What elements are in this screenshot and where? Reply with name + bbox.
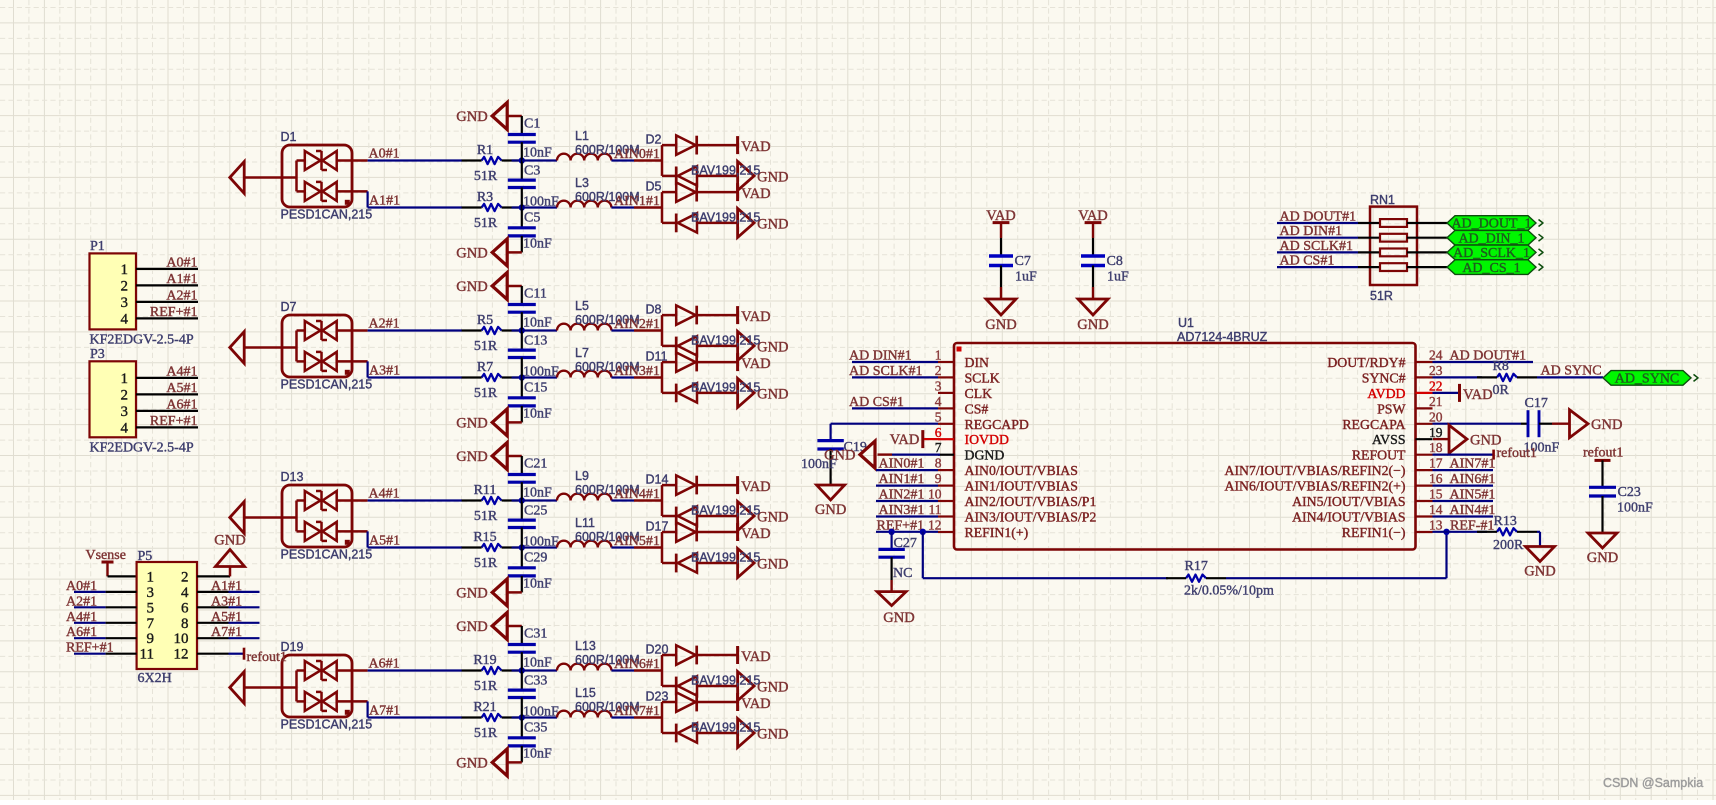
svg-text:2: 2	[121, 387, 129, 403]
svg-text:3: 3	[121, 295, 129, 311]
svg-text:AD SYNC: AD SYNC	[1541, 364, 1602, 379]
svg-text:PESD1CAN,215: PESD1CAN,215	[281, 718, 373, 732]
svg-text:VAD: VAD	[741, 139, 771, 155]
svg-text:1uF: 1uF	[1107, 270, 1129, 285]
svg-text:10nF: 10nF	[523, 316, 552, 331]
svg-text:refout1: refout1	[247, 650, 287, 665]
svg-text:C5: C5	[524, 210, 540, 225]
svg-text:3: 3	[121, 404, 129, 420]
svg-text:AIN7#1: AIN7#1	[1450, 457, 1496, 472]
svg-text:AIN0#1: AIN0#1	[614, 147, 660, 162]
svg-text:R5: R5	[477, 313, 493, 328]
svg-text:A3#1: A3#1	[369, 364, 400, 379]
svg-text:AIN1#1: AIN1#1	[614, 194, 660, 209]
svg-text:A1#1: A1#1	[369, 194, 400, 209]
svg-text:refout1: refout1	[1583, 446, 1623, 461]
svg-text:51R: 51R	[474, 216, 498, 231]
svg-text:R3: R3	[477, 190, 493, 205]
svg-text:REF+#1: REF+#1	[150, 414, 198, 429]
svg-text:GND: GND	[757, 386, 788, 402]
svg-text:VAD: VAD	[741, 356, 771, 372]
svg-text:AIN5#1: AIN5#1	[1450, 488, 1496, 503]
svg-text:R8: R8	[1493, 359, 1509, 374]
svg-text:1: 1	[121, 371, 129, 387]
svg-text:AIN6/IOUT/VBIAS/REFIN2(+): AIN6/IOUT/VBIAS/REFIN2(+)	[1225, 479, 1406, 495]
svg-text:L13: L13	[575, 639, 596, 653]
svg-text:refout1: refout1	[1497, 446, 1537, 461]
svg-text:A7#1: A7#1	[369, 704, 400, 719]
svg-text:VAD: VAD	[741, 309, 771, 325]
svg-text:REF+#1: REF+#1	[877, 518, 925, 533]
svg-text:AIN1#1: AIN1#1	[879, 472, 925, 487]
svg-text:NC: NC	[893, 566, 912, 581]
svg-text:PESD1CAN,215: PESD1CAN,215	[281, 208, 373, 222]
svg-text:20: 20	[1429, 409, 1443, 424]
svg-text:R13: R13	[1494, 514, 1517, 529]
svg-text:U1: U1	[1178, 316, 1194, 330]
svg-text:REGCAPD: REGCAPD	[965, 417, 1029, 432]
svg-text:51R: 51R	[474, 556, 498, 571]
svg-text:C35: C35	[524, 720, 547, 735]
svg-text:C23: C23	[1618, 485, 1641, 500]
svg-text:P1: P1	[90, 239, 105, 254]
svg-text:A0#1: A0#1	[66, 579, 97, 594]
svg-text:CLK: CLK	[965, 386, 993, 401]
svg-text:KF2EDGV-2.5-4P: KF2EDGV-2.5-4P	[90, 333, 194, 348]
svg-text:R21: R21	[473, 700, 496, 715]
svg-text:13: 13	[1429, 518, 1443, 533]
svg-text:GND: GND	[757, 339, 788, 355]
svg-text:AIN2#1: AIN2#1	[614, 317, 660, 332]
svg-text:AD_DIN_1: AD_DIN_1	[1458, 231, 1524, 246]
svg-text:AIN5/IOUT/VBIAS: AIN5/IOUT/VBIAS	[1292, 494, 1405, 509]
svg-text:VAD: VAD	[1463, 387, 1493, 403]
svg-text:GND: GND	[757, 510, 788, 526]
svg-text:L15: L15	[575, 686, 596, 700]
svg-text:12: 12	[174, 647, 189, 663]
svg-text:AD DOUT#1: AD DOUT#1	[1450, 349, 1527, 364]
svg-text:REF+#1: REF+#1	[150, 305, 198, 320]
svg-text:5: 5	[935, 409, 942, 424]
svg-text:4: 4	[121, 420, 129, 436]
svg-text:GND: GND	[456, 109, 487, 125]
svg-text:BAV199,215: BAV199,215	[691, 504, 760, 518]
svg-text:51R: 51R	[474, 386, 498, 401]
svg-text:D5: D5	[646, 180, 662, 194]
svg-text:D13: D13	[281, 470, 304, 484]
svg-text:C11: C11	[524, 286, 547, 301]
svg-text:GND: GND	[757, 169, 788, 185]
svg-text:7: 7	[147, 616, 155, 632]
svg-text:A1#1: A1#1	[166, 272, 197, 287]
svg-text:R1: R1	[477, 143, 493, 158]
svg-text:51R: 51R	[474, 509, 498, 524]
svg-text:C21: C21	[524, 456, 547, 471]
svg-text:5: 5	[147, 600, 155, 616]
svg-text:GND: GND	[456, 415, 487, 431]
svg-text:GND: GND	[824, 448, 855, 464]
svg-text:10: 10	[928, 487, 942, 502]
svg-text:AIN0#1: AIN0#1	[879, 457, 925, 472]
svg-text:8: 8	[181, 616, 189, 632]
svg-text:CS#: CS#	[965, 401, 989, 416]
svg-text:D8: D8	[646, 303, 662, 317]
svg-text:P3: P3	[90, 347, 105, 362]
svg-text:A4#1: A4#1	[369, 487, 400, 502]
svg-text:A5#1: A5#1	[211, 610, 242, 625]
svg-text:C17: C17	[1525, 396, 1548, 411]
svg-text:17: 17	[1429, 456, 1443, 471]
svg-text:RN1: RN1	[1370, 193, 1395, 207]
svg-text:18: 18	[1429, 440, 1443, 455]
svg-text:21: 21	[1429, 394, 1443, 409]
svg-text:10: 10	[174, 631, 189, 647]
svg-text:A6#1: A6#1	[166, 397, 197, 412]
svg-text:AIN6#1: AIN6#1	[1450, 472, 1496, 487]
svg-text:D11: D11	[646, 350, 668, 364]
svg-text:2: 2	[121, 278, 129, 294]
svg-text:BAV199,215: BAV199,215	[691, 380, 760, 394]
svg-text:GND: GND	[757, 680, 788, 696]
svg-text:51R: 51R	[474, 169, 498, 184]
svg-text:BAV199,215: BAV199,215	[691, 674, 760, 688]
svg-text:1uF: 1uF	[1015, 270, 1037, 285]
svg-text:AIN7/IOUT/VBIAS/REFIN2(−): AIN7/IOUT/VBIAS/REFIN2(−)	[1225, 463, 1406, 479]
svg-text:GND: GND	[456, 245, 487, 261]
svg-text:10nF: 10nF	[523, 237, 552, 252]
svg-text:REFOUT: REFOUT	[1352, 448, 1406, 463]
svg-text:C29: C29	[524, 550, 547, 565]
svg-text:DOUT/RDY#: DOUT/RDY#	[1327, 355, 1405, 370]
svg-text:GND: GND	[1524, 564, 1555, 580]
svg-text:15: 15	[1429, 487, 1443, 502]
svg-text:AIN4#1: AIN4#1	[614, 487, 660, 502]
svg-text:GND: GND	[456, 755, 487, 771]
svg-text:REFIN1(−): REFIN1(−)	[1342, 525, 1406, 541]
svg-text:AIN5#1: AIN5#1	[614, 534, 660, 549]
svg-text:AD DIN#1: AD DIN#1	[1280, 224, 1343, 239]
svg-text:AIN3#1: AIN3#1	[614, 364, 660, 379]
svg-text:GND: GND	[985, 317, 1016, 333]
svg-text:6X2H: 6X2H	[138, 671, 172, 686]
svg-text:KF2EDGV-2.5-4P: KF2EDGV-2.5-4P	[90, 441, 194, 456]
svg-text:D23: D23	[646, 690, 669, 704]
svg-text:GND: GND	[757, 557, 788, 573]
svg-text:AD DOUT#1: AD DOUT#1	[1280, 210, 1357, 225]
svg-text:200R: 200R	[1493, 538, 1524, 553]
svg-text:C13: C13	[524, 333, 547, 348]
svg-text:SYNC#: SYNC#	[1362, 370, 1406, 385]
svg-text:GND: GND	[1587, 550, 1618, 566]
svg-text:BAV199,215: BAV199,215	[691, 333, 760, 347]
svg-text:A2#1: A2#1	[369, 317, 400, 332]
svg-text:VAD: VAD	[741, 649, 771, 665]
svg-text:10nF: 10nF	[523, 486, 552, 501]
svg-text:A6#1: A6#1	[66, 625, 97, 640]
svg-text:A3#1: A3#1	[211, 594, 242, 609]
svg-text:23: 23	[1429, 363, 1443, 378]
svg-text:1: 1	[935, 348, 942, 363]
svg-text:VAD: VAD	[741, 479, 771, 495]
svg-text:L3: L3	[575, 176, 589, 190]
svg-text:L5: L5	[575, 299, 589, 313]
svg-text:AIN2/IOUT/VBIAS/P1: AIN2/IOUT/VBIAS/P1	[965, 494, 1097, 509]
svg-text:AD_CS_1: AD_CS_1	[1462, 261, 1520, 276]
svg-text:VAD: VAD	[741, 526, 771, 542]
svg-text:BAV199,215: BAV199,215	[691, 551, 760, 565]
svg-text:A5#1: A5#1	[166, 381, 197, 396]
svg-text:C33: C33	[524, 673, 547, 688]
svg-text:BAV199,215: BAV199,215	[691, 210, 760, 224]
svg-text:GND: GND	[456, 279, 487, 295]
svg-text:AIN6#1: AIN6#1	[614, 657, 660, 672]
svg-text:REFIN1(+): REFIN1(+)	[965, 525, 1029, 541]
svg-text:CSDN @Sampkia: CSDN @Sampkia	[1603, 776, 1703, 790]
svg-text:10nF: 10nF	[523, 577, 552, 592]
svg-text:R7: R7	[477, 360, 493, 375]
svg-text:AD_DOUT_1: AD_DOUT_1	[1451, 217, 1531, 232]
svg-text:AD_SYNC: AD_SYNC	[1615, 372, 1680, 387]
svg-text:A4#1: A4#1	[66, 610, 97, 625]
svg-text:11: 11	[140, 647, 154, 663]
svg-text:AD CS#1: AD CS#1	[849, 395, 904, 410]
svg-text:DIN: DIN	[965, 355, 990, 370]
svg-text:C31: C31	[524, 626, 547, 641]
svg-text:51R: 51R	[474, 679, 498, 694]
svg-text:AD CS#1: AD CS#1	[1280, 254, 1335, 269]
svg-text:PSW: PSW	[1377, 401, 1405, 416]
svg-text:100nF: 100nF	[1617, 501, 1653, 516]
svg-text:AIN1/IOUT/VBIAS: AIN1/IOUT/VBIAS	[965, 479, 1078, 494]
svg-text:GND: GND	[1077, 317, 1108, 333]
svg-text:1: 1	[147, 569, 155, 585]
svg-text:16: 16	[1429, 471, 1443, 486]
svg-text:DGND: DGND	[965, 448, 1005, 463]
svg-text:9: 9	[147, 631, 155, 647]
svg-text:51R: 51R	[474, 726, 498, 741]
svg-text:A2#1: A2#1	[166, 288, 197, 303]
svg-text:PESD1CAN,215: PESD1CAN,215	[281, 378, 373, 392]
svg-text:D20: D20	[646, 643, 669, 657]
svg-text:L9: L9	[575, 469, 589, 483]
svg-text:C15: C15	[524, 380, 547, 395]
svg-text:A7#1: A7#1	[211, 625, 242, 640]
svg-text:51R: 51R	[1370, 289, 1393, 303]
svg-text:3: 3	[935, 378, 942, 393]
svg-text:GND: GND	[815, 502, 846, 518]
svg-text:6: 6	[181, 600, 189, 616]
svg-text:AVSS: AVSS	[1372, 432, 1406, 447]
svg-text:SCLK: SCLK	[965, 370, 1000, 385]
svg-text:VAD: VAD	[741, 186, 771, 202]
svg-text:A6#1: A6#1	[369, 657, 400, 672]
svg-text:REGCAPA: REGCAPA	[1342, 417, 1405, 432]
svg-text:9: 9	[935, 471, 942, 486]
svg-text:C3: C3	[524, 163, 540, 178]
svg-text:AD SCLK#1: AD SCLK#1	[1280, 239, 1354, 254]
svg-text:A5#1: A5#1	[369, 534, 400, 549]
svg-text:REF+#1: REF+#1	[66, 641, 114, 656]
svg-text:12: 12	[928, 518, 942, 533]
svg-text:AIN4#1: AIN4#1	[1450, 503, 1496, 518]
svg-text:10nF: 10nF	[523, 656, 552, 671]
svg-text:AIN2#1: AIN2#1	[879, 488, 925, 503]
svg-text:2k/0.05%/10pm: 2k/0.05%/10pm	[1184, 584, 1274, 599]
svg-text:AD SCLK#1: AD SCLK#1	[849, 364, 923, 379]
svg-text:19: 19	[1429, 425, 1443, 440]
svg-text:AIN0/IOUT/VBIAS: AIN0/IOUT/VBIAS	[965, 463, 1078, 478]
svg-text:10nF: 10nF	[523, 407, 552, 422]
svg-text:BAV199,215: BAV199,215	[691, 721, 760, 735]
svg-text:AIN4/IOUT/VBIAS: AIN4/IOUT/VBIAS	[1292, 510, 1405, 525]
svg-text:L1: L1	[575, 129, 589, 143]
svg-text:4: 4	[181, 585, 189, 601]
svg-text:C1: C1	[524, 116, 540, 131]
svg-text:L11: L11	[575, 516, 595, 530]
svg-text:GND: GND	[1591, 417, 1622, 433]
svg-text:PESD1CAN,215: PESD1CAN,215	[281, 548, 373, 562]
svg-text:A0#1: A0#1	[369, 147, 400, 162]
svg-text:C8: C8	[1107, 254, 1123, 269]
svg-text:AIN3#1: AIN3#1	[879, 503, 925, 518]
svg-text:22: 22	[1429, 378, 1443, 393]
svg-text:51R: 51R	[474, 339, 498, 354]
svg-text:VAD: VAD	[741, 696, 771, 712]
svg-text:3: 3	[147, 585, 155, 601]
svg-text:10nF: 10nF	[523, 747, 552, 762]
svg-text:A1#1: A1#1	[211, 579, 242, 594]
svg-text:24: 24	[1429, 348, 1443, 363]
svg-text:14: 14	[1429, 502, 1443, 517]
svg-text:GND: GND	[456, 449, 487, 465]
svg-text:1: 1	[121, 262, 129, 278]
svg-text:8: 8	[935, 456, 942, 471]
svg-text:A0#1: A0#1	[166, 255, 197, 270]
svg-text:R11: R11	[474, 483, 497, 498]
svg-text:C27: C27	[894, 536, 917, 551]
svg-text:2: 2	[181, 569, 189, 585]
svg-text:0R: 0R	[1493, 383, 1510, 398]
svg-text:VAD: VAD	[890, 432, 920, 448]
svg-text:A4#1: A4#1	[166, 364, 197, 379]
svg-text:AD_SCLK_1: AD_SCLK_1	[1453, 246, 1530, 261]
svg-text:IOVDD: IOVDD	[965, 432, 1009, 447]
svg-text:C7: C7	[1015, 254, 1031, 269]
svg-text:D1: D1	[281, 130, 297, 144]
svg-text:D7: D7	[281, 300, 297, 314]
svg-text:A2#1: A2#1	[66, 594, 97, 609]
svg-text:AIN3/IOUT/VBIAS/P2: AIN3/IOUT/VBIAS/P2	[965, 510, 1097, 525]
svg-text:11: 11	[929, 502, 942, 517]
svg-text:6: 6	[935, 425, 942, 440]
svg-text:R17: R17	[1185, 559, 1208, 574]
svg-text:GND: GND	[214, 533, 245, 549]
svg-text:GND: GND	[757, 216, 788, 232]
svg-text:D17: D17	[646, 520, 669, 534]
svg-text:GND: GND	[883, 610, 914, 626]
svg-text:C25: C25	[524, 503, 547, 518]
svg-text:GND: GND	[456, 619, 487, 635]
svg-text:GND: GND	[456, 585, 487, 601]
svg-text:7: 7	[935, 440, 942, 455]
svg-text:R19: R19	[473, 653, 496, 668]
svg-text:AVDD: AVDD	[1367, 386, 1405, 401]
svg-text:AIN7#1: AIN7#1	[614, 704, 660, 719]
svg-text:4: 4	[935, 394, 942, 409]
svg-text:R15: R15	[473, 530, 496, 545]
svg-text:GND: GND	[757, 727, 788, 743]
svg-text:4: 4	[121, 311, 129, 327]
svg-text:2: 2	[935, 363, 942, 378]
svg-text:BAV199,215: BAV199,215	[691, 163, 760, 177]
svg-text:10nF: 10nF	[523, 146, 552, 161]
svg-text:D14: D14	[646, 473, 669, 487]
svg-text:AD DIN#1: AD DIN#1	[849, 349, 912, 364]
svg-text:D2: D2	[646, 133, 662, 147]
svg-text:L7: L7	[575, 346, 589, 360]
